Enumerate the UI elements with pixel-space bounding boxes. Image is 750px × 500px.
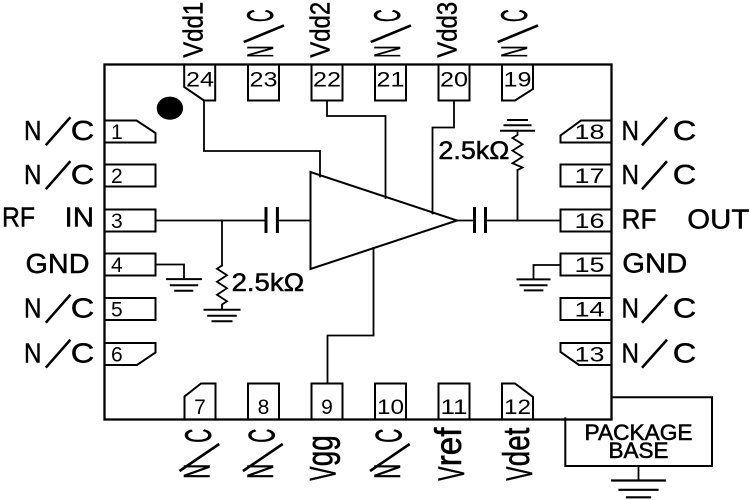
pin 16 box — [561, 210, 612, 232]
svg-text:Vdd2: Vdd2 — [305, 2, 336, 58]
label N/C pin14 — [622, 292, 697, 323]
label N/C bottom — [239, 429, 283, 479]
svg-text:20: 20 — [440, 69, 468, 92]
svg-text:C: C — [366, 9, 408, 22]
pin 2 box — [105, 165, 156, 187]
label N/C top — [239, 9, 284, 57]
wire package base to ground — [638, 466, 640, 480]
svg-text:8: 8 — [258, 396, 270, 419]
wire pin20 Vdd3 to amp — [433, 101, 455, 214]
pin 18 box — [561, 121, 612, 143]
pin 1 box — [105, 121, 156, 143]
svg-text:N: N — [239, 46, 281, 58]
label N/C pin1 — [24, 115, 94, 146]
svg-text:RF: RF — [2, 201, 35, 232]
label RF IN pin3 — [2, 201, 94, 232]
svg-text:N: N — [24, 292, 42, 323]
capacitor C2 — [475, 209, 486, 232]
svg-text:12: 12 — [504, 396, 531, 419]
svg-text:7: 7 — [194, 396, 206, 419]
svg-text:gg: gg — [299, 435, 341, 466]
svg-text:N: N — [24, 115, 42, 146]
svg-text:BASE: BASE — [609, 438, 669, 463]
svg-text:V: V — [302, 467, 344, 481]
IC body — [105, 65, 612, 420]
label N/C pin13 — [622, 337, 697, 368]
svg-text:IN: IN — [65, 201, 95, 232]
svg-text:ref: ref — [427, 427, 469, 466]
svg-text:6: 6 — [111, 344, 123, 367]
svg-text:Vdd1: Vdd1 — [178, 2, 209, 58]
svg-text:24: 24 — [186, 69, 214, 92]
svg-text:Vdd3: Vdd3 — [432, 2, 463, 58]
label Vgg bottom — [299, 435, 344, 481]
label N/C pin17 — [622, 159, 697, 190]
svg-text:N: N — [176, 464, 218, 479]
svg-text:22: 22 — [313, 69, 341, 92]
pin 4 box — [105, 254, 156, 276]
svg-text:5: 5 — [111, 299, 123, 322]
wire node to resistor R1 — [221, 221, 223, 266]
label Vref bottom — [427, 427, 472, 481]
wire C2 to pin16 RF OUT — [487, 220, 561, 222]
svg-text:N: N — [366, 464, 408, 479]
wire pin9 Vgg to amp — [328, 248, 374, 384]
pin 5 box — [105, 298, 156, 320]
svg-text:C: C — [239, 9, 281, 22]
label N/C pin18 — [622, 115, 697, 146]
wire pin4 to ground — [156, 265, 185, 279]
resistor R1 2.5k — [217, 266, 227, 309]
label N/C top — [366, 9, 411, 57]
svg-text:18: 18 — [575, 121, 605, 144]
ground below package base — [612, 481, 665, 498]
svg-text:10: 10 — [377, 396, 404, 419]
pin 17 box — [561, 165, 612, 187]
pin 19 box — [502, 65, 533, 101]
pin 7 box — [185, 384, 216, 420]
pin 6 box — [105, 343, 156, 365]
svg-text:15: 15 — [575, 254, 605, 277]
op-amp U1 triangle — [311, 172, 458, 269]
svg-text:21: 21 — [377, 69, 405, 92]
svg-text:19: 19 — [504, 69, 532, 92]
svg-text:V: V — [430, 467, 472, 481]
svg-text:OUT: OUT — [687, 203, 749, 234]
svg-text:C: C — [71, 159, 95, 190]
pin 21 box — [375, 65, 406, 101]
svg-text:N: N — [24, 159, 42, 190]
svg-text:13: 13 — [575, 344, 605, 367]
svg-text:C: C — [241, 429, 283, 443]
wire C1 to amp input — [279, 220, 311, 222]
svg-text:GND: GND — [622, 247, 687, 278]
svg-text:N: N — [622, 115, 640, 146]
svg-text:16: 16 — [575, 210, 605, 233]
svg-text:2: 2 — [111, 165, 123, 188]
svg-text:C: C — [673, 292, 697, 323]
svg-text:C: C — [177, 429, 219, 443]
label N/C pin2 — [24, 159, 94, 190]
label N/C bottom — [176, 429, 220, 479]
pin 20 box — [439, 65, 470, 101]
ground at pin 15 — [518, 279, 550, 290]
wire R2 to output — [517, 170, 519, 221]
svg-text:det: det — [495, 428, 537, 467]
label N/C bottom — [366, 429, 410, 479]
pin 15 box — [561, 254, 612, 276]
svg-text:23: 23 — [250, 69, 278, 92]
wire pin24 Vdd1 to amp — [204, 101, 320, 177]
pin 9 box — [312, 384, 343, 420]
svg-text:14: 14 — [575, 299, 605, 322]
wire pin3 RF IN to capacitor C1 — [156, 220, 265, 222]
pin 10 box — [375, 384, 406, 420]
label RF OUT pin16 — [622, 203, 750, 234]
resistor R2 2.5k — [513, 131, 523, 170]
pin 12 box — [502, 384, 533, 420]
svg-text:C: C — [71, 115, 95, 146]
pin 1 index dot — [157, 97, 183, 120]
svg-text:C: C — [368, 429, 410, 443]
svg-text:C: C — [673, 159, 697, 190]
wire pin15 to ground — [534, 265, 561, 278]
pin 13 box — [561, 343, 612, 365]
svg-text:3: 3 — [111, 210, 123, 233]
ground below R1 — [205, 310, 240, 322]
svg-text:C: C — [493, 9, 535, 22]
label Vdet bottom — [495, 428, 540, 481]
pin 11 box — [439, 384, 470, 420]
pin 22 box — [312, 65, 343, 101]
pin 8 box — [248, 384, 279, 420]
inverted ground above R2 — [501, 120, 534, 131]
svg-text:N: N — [239, 464, 281, 479]
svg-text:C: C — [673, 337, 697, 368]
svg-text:N: N — [366, 46, 408, 58]
svg-text:2.5kΩ: 2.5kΩ — [438, 137, 509, 165]
pin 23 box — [248, 65, 279, 101]
label N/C pin6 — [24, 337, 94, 368]
capacitor C1 — [266, 209, 277, 232]
svg-text:9: 9 — [321, 396, 333, 419]
svg-text:2.5kΩ: 2.5kΩ — [232, 269, 305, 297]
svg-text:C: C — [673, 115, 697, 146]
svg-text:RF: RF — [622, 203, 657, 234]
svg-text:4: 4 — [111, 254, 123, 277]
label N/C pin5 — [24, 292, 94, 323]
wire pin22 Vdd2 to amp — [327, 101, 386, 199]
svg-text:V: V — [498, 467, 540, 481]
svg-text:C: C — [71, 337, 95, 368]
wire amp output to capacitor C2 — [457, 220, 473, 222]
pin 3 box — [105, 210, 156, 232]
svg-text:N: N — [24, 337, 42, 368]
svg-text:17: 17 — [575, 165, 605, 188]
ground at pin 4 — [167, 279, 201, 291]
package base box — [565, 397, 712, 466]
label N/C top — [493, 9, 538, 57]
svg-text:11: 11 — [441, 396, 468, 419]
svg-text:GND: GND — [26, 248, 90, 279]
svg-text:N: N — [622, 337, 640, 368]
svg-text:N: N — [622, 292, 640, 323]
svg-text:N: N — [622, 159, 640, 190]
svg-text:C: C — [71, 292, 95, 323]
svg-text:N: N — [493, 46, 535, 58]
pin 24 box — [184, 65, 215, 101]
svg-text:1: 1 — [111, 121, 123, 144]
pin 14 box — [561, 298, 612, 320]
